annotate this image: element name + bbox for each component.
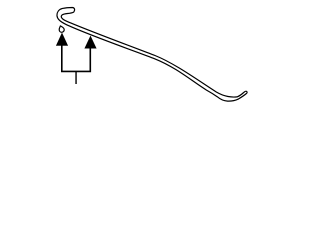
rubber tip grommet (teardrop) <box>59 26 64 32</box>
right callout arrow <box>85 36 96 48</box>
left callout arrow <box>56 33 67 45</box>
bracket leader stem <box>75 71 77 84</box>
callout bracket <box>62 45 91 71</box>
rod (hood support rod outline with hooked left end and upturned right tip) <box>57 8 247 102</box>
